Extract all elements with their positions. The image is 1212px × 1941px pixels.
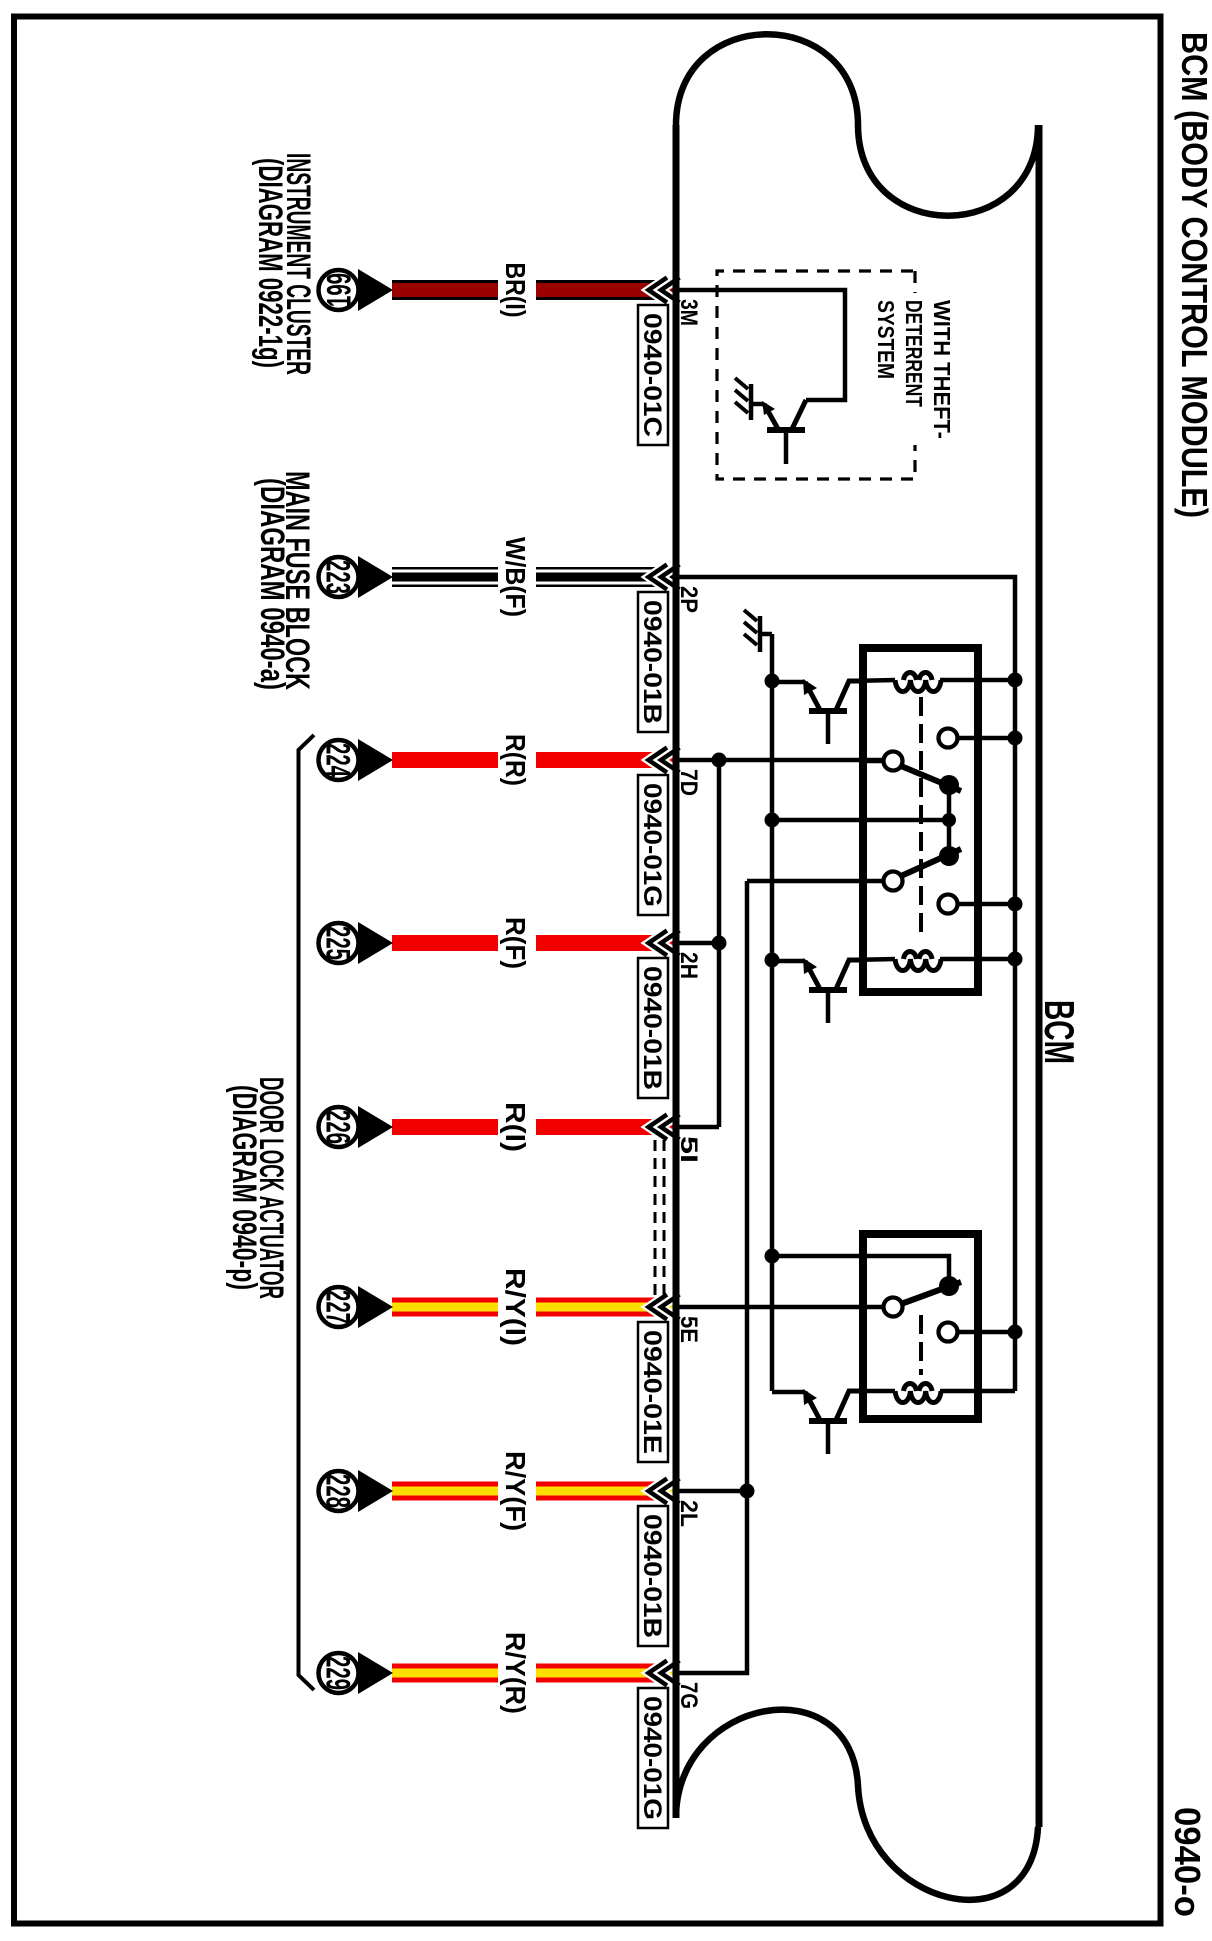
ground G2 stub	[760, 632, 772, 637]
svg-text:R(I): R(I)	[500, 1102, 531, 1152]
node bus-Q2	[765, 953, 780, 968]
chevron at pin 5I	[649, 1115, 680, 1140]
connector code box 0940-01G at pin 7D	[638, 775, 668, 915]
svg-text:229: 229	[319, 1656, 357, 1690]
node bus-Q1	[765, 674, 780, 689]
svg-text:0940-01B: 0940-01B	[638, 966, 666, 1090]
node bus-relay1-common	[765, 813, 780, 828]
wire label R(F)	[498, 928, 536, 958]
opto transistor Q4 emitter	[764, 404, 778, 429]
svg-text:0940-01B: 0940-01B	[638, 600, 666, 724]
arrowhead at connector 223	[358, 556, 393, 598]
relay K1 mechanical link	[919, 697, 923, 937]
transistor Q2 emitter wire	[772, 959, 805, 964]
wire 5E to contact c1p	[679, 1305, 884, 1310]
door lock group bracket	[299, 735, 315, 1690]
arrowhead at connector 228	[358, 1470, 393, 1512]
relay K2 contact c1p	[884, 1298, 903, 1317]
svg-text:R/Y(I): R/Y(I)	[500, 1268, 531, 1346]
svg-text:0940-o: 0940-o	[1167, 1807, 1208, 1917]
relay K1 contact c1 lead	[867, 759, 884, 764]
svg-text:199: 199	[321, 273, 359, 307]
opto transistor Q4 collector diagonal	[792, 400, 806, 429]
opto transistor Q4 base lead	[784, 432, 789, 464]
wire 2P feed line	[679, 577, 1015, 1391]
svg-text:(DIAGRAM 0940-a): (DIAGRAM 0940-a)	[253, 478, 291, 690]
svg-text:0940-01G: 0940-01G	[638, 783, 666, 907]
node 2H link	[712, 936, 727, 951]
wire label R/Y(R)	[498, 1658, 536, 1688]
connector circle 223	[319, 557, 359, 597]
connector code box 0940-01B at pin 2P	[638, 592, 668, 732]
connector circle 228	[319, 1471, 359, 1511]
relay K1 coil L2 lower lead	[849, 959, 895, 960]
node feed-c4	[1008, 897, 1023, 912]
svg-text:226: 226	[319, 1110, 357, 1144]
svg-text:R(R): R(R)	[500, 734, 531, 786]
svg-text:BCM: BCM	[1036, 1000, 1083, 1064]
transistor Q2 base bar	[809, 987, 847, 993]
transistor Q2 emitter	[805, 961, 820, 989]
transistor Q3 emitter	[805, 1392, 820, 1420]
arrowhead at connector 199	[358, 269, 393, 311]
node bus-relay2-common	[765, 1249, 780, 1264]
svg-text:SYSTEM: SYSTEM	[873, 300, 899, 379]
svg-text:R(F): R(F)	[500, 917, 531, 969]
theft deterrent dashed box	[717, 271, 915, 479]
transistor Q3 base lead	[826, 1422, 831, 1454]
arrowhead at connector 224	[358, 739, 393, 781]
relay K1 coil L1 lead	[940, 678, 1015, 683]
relay K2 contact c2p lead	[957, 1330, 1015, 1335]
wire R(R) (pin 7D)	[392, 752, 673, 768]
node K1 common	[942, 813, 956, 827]
wire R/Y(I) (pin 5E)	[392, 1298, 673, 1317]
connector code box 0940-01B at pin 2L	[638, 1506, 668, 1646]
BCM module pin edge	[673, 125, 680, 1818]
transistor Q1 emitter	[805, 682, 820, 710]
opto transistor Q4 base bar	[767, 427, 805, 433]
transistor Q2 base lead	[826, 991, 831, 1023]
theft text background	[872, 293, 956, 445]
wire label R(R)	[498, 745, 536, 775]
svg-text:0940-01G: 0940-01G	[638, 1696, 666, 1820]
relay K1 moving contact m1	[939, 775, 959, 795]
relay K1 moving contact link	[947, 787, 952, 853]
relay K1 coil L1 lower lead	[849, 680, 895, 681]
svg-text:224: 224	[319, 743, 357, 777]
relay K2 coil lower lead	[849, 1389, 895, 1394]
arrowhead at connector 225	[358, 922, 393, 964]
wire R(I) (pin 5I)	[392, 1119, 673, 1135]
svg-text:WITH THEFT-: WITH THEFT-	[929, 300, 955, 439]
chevron at pin 7D	[649, 748, 680, 773]
node 2L	[740, 1484, 755, 1499]
BCM module right torn edge	[676, 1710, 1038, 1900]
chevron at pin 5E	[649, 1295, 680, 1320]
relay K1 armature arm a2	[901, 849, 961, 876]
connector circle 227	[319, 1287, 359, 1327]
node 7D link	[712, 753, 727, 768]
ground G1 stub	[752, 402, 764, 407]
connector code box 0940-01E at pin 5E	[638, 1322, 668, 1462]
relay K2 contact c2p	[939, 1323, 958, 1342]
connector circle 199	[319, 270, 359, 310]
relay K2 armature arm	[901, 1282, 961, 1304]
wire 2H riser	[679, 941, 719, 946]
BCM module left torn edge	[676, 34, 1038, 216]
transistor Q3 base bar	[809, 1418, 847, 1424]
node feed-coil2	[1008, 952, 1023, 967]
wire c2 to 2L and 7G	[679, 881, 747, 1673]
wire label R/Y(I)	[498, 1292, 536, 1322]
svg-text:(DIAGRAM 0940-p): (DIAGRAM 0940-p)	[225, 1085, 263, 1290]
connector code box 0940-01G at pin 7G	[638, 1688, 668, 1828]
relay K1 coil L1	[895, 680, 941, 692]
relay K1 contact c4 lead	[957, 902, 1015, 907]
transistor Q3 collector	[836, 1391, 866, 1420]
wire label BR(I)	[498, 275, 536, 305]
svg-text:0940-01C: 0940-01C	[638, 313, 666, 437]
svg-text:(DIAGRAM 0922-1g): (DIAGRAM 0922-1g)	[251, 158, 289, 368]
dashed wire continuation R(I) to 5E	[655, 1140, 664, 1298]
connector circle 229	[319, 1653, 359, 1693]
wire 7D to contact c1	[679, 758, 884, 763]
wire R(F) (pin 2H)	[392, 935, 673, 951]
relay K1 contact c4	[939, 895, 958, 914]
relay K1 contact c2	[884, 872, 903, 891]
svg-text:227: 227	[319, 1290, 357, 1324]
svg-text:R/Y(F): R/Y(F)	[500, 1451, 531, 1531]
svg-text:0940-01B: 0940-01B	[638, 1514, 666, 1638]
connector code box 0940-01C at pin 3M	[638, 305, 668, 445]
svg-text:W/B(F): W/B(F)	[500, 537, 531, 617]
wire label R(I)	[498, 1112, 536, 1142]
connector code box 0940-01B at pin 2H	[638, 958, 668, 1098]
node feed-c3	[1008, 731, 1023, 746]
relay K1 coil L2 lead	[940, 957, 1015, 962]
relay K1 contact c3 lead	[957, 736, 1015, 741]
transistor Q1 collector	[836, 681, 866, 710]
BCM module top edge	[1036, 125, 1043, 1827]
chevron at pin 2L	[649, 1479, 680, 1504]
ground G2	[758, 616, 763, 652]
relay K1 contact c3	[939, 729, 958, 748]
transistor Q1 base lead	[826, 712, 831, 744]
svg-text:BCM (BODY CONTROL MODULE): BCM (BODY CONTROL MODULE)	[1174, 32, 1212, 518]
wire label W/B(F)	[498, 562, 536, 592]
chevron at pin 2H	[649, 931, 680, 956]
transistor Q1 emitter wire	[772, 680, 805, 685]
arrowhead at connector 229	[358, 1652, 393, 1694]
svg-text:225: 225	[319, 926, 357, 960]
transistor Q2 collector	[836, 960, 866, 989]
wire 3M to opto collector	[679, 290, 845, 400]
ground bus wire	[770, 634, 775, 1391]
svg-text:DETERRENT: DETERRENT	[901, 300, 927, 407]
chevron at pin 3M	[649, 278, 680, 303]
relay K2 moving contact	[939, 1276, 959, 1296]
wire R/Y(R) (pin 7G)	[392, 1664, 673, 1683]
chevron at pin 7G	[649, 1661, 680, 1686]
relay K1 contact c2 lead	[747, 879, 884, 884]
relay K2 mechanical link	[919, 1315, 923, 1375]
relay K1 common wire	[772, 818, 949, 823]
connector circle 225	[319, 923, 359, 963]
connector circle 224	[319, 740, 359, 780]
transistor Q1 base bar	[809, 708, 847, 714]
relay K1 moving contact m2	[939, 846, 959, 866]
node feed-c2p	[1008, 1325, 1023, 1340]
relay K2 common wire	[772, 1256, 949, 1277]
relay K2 coil	[895, 1391, 941, 1403]
wire 2L riser	[679, 1489, 747, 1494]
wire BR(I) (pin 3M)	[392, 280, 673, 300]
wire R/Y(F) (pin 2L)	[392, 1482, 673, 1501]
relay K1 armature arm a1	[901, 766, 961, 791]
svg-text:BR(I): BR(I)	[500, 263, 531, 318]
wire label R/Y(F)	[498, 1476, 536, 1506]
svg-text:R/Y(R): R/Y(R)	[500, 1632, 531, 1714]
wire W/B(F) (pin 2P)	[392, 567, 673, 587]
BCM module pin edge overdraw	[673, 125, 680, 1818]
ground G1	[749, 384, 754, 420]
node feed-coil1	[1008, 673, 1023, 688]
connector circle 226	[319, 1107, 359, 1147]
svg-text:0940-01E: 0940-01E	[638, 1330, 666, 1454]
relay K1 coil L2	[895, 959, 941, 971]
svg-text:223: 223	[319, 560, 357, 594]
relay K2 box	[863, 1234, 978, 1419]
relay K1 box	[863, 648, 978, 992]
svg-text:228: 228	[319, 1474, 357, 1508]
arrowhead at connector 227	[358, 1286, 393, 1328]
transistor Q3 emitter wire	[772, 1390, 805, 1395]
relay K2 coil lead	[940, 1389, 1015, 1394]
wire 5I riser	[679, 1125, 719, 1130]
chevron at pin 2P	[649, 565, 680, 590]
relay K1 contact c1	[884, 752, 903, 771]
arrowhead at connector 226	[358, 1106, 393, 1148]
wire link 7D-2H-5I	[717, 760, 722, 1127]
